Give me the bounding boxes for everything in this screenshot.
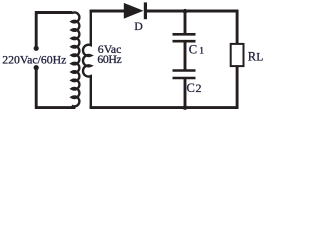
terminal dot upper 220V input — [34, 46, 39, 51]
svg-text:60Hz: 60Hz — [97, 52, 121, 66]
wire capacitor branch lower — [184, 79, 187, 109]
wire right vertical upper — [236, 10, 239, 44]
svg-text:C1: C1 — [189, 43, 204, 57]
junction node bottom at capacitor branch — [183, 105, 188, 110]
wire primary left upper — [35, 11, 38, 46]
wire bottom — [90, 106, 239, 109]
wire primary left lower — [35, 70, 38, 109]
wire right vertical lower — [236, 66, 239, 109]
svg-text:220Vac/60Hz: 220Vac/60Hz — [2, 52, 66, 66]
wire primary bottom — [35, 106, 76, 109]
wire secondary top to diode — [90, 10, 125, 13]
svg-text:C2: C2 — [187, 81, 202, 95]
resistor RL body — [231, 44, 244, 66]
wire capacitor branch upper — [184, 11, 187, 34]
inductor primary winding — [72, 12, 80, 106]
capacitor C2 plates — [173, 71, 196, 79]
junction node top at capacitor branch — [183, 9, 188, 14]
diode D symbol — [124, 2, 147, 19]
terminal dot lower 220V input — [34, 65, 39, 70]
wire top right from diode cathode — [146, 10, 238, 13]
svg-text:RL: RL — [248, 50, 264, 64]
wire between C1 and C2 — [184, 42, 187, 70]
wire primary top — [35, 11, 72, 14]
inductor secondary winding — [83, 10, 91, 109]
svg-text:D: D — [134, 19, 143, 33]
capacitor C1 plates — [173, 34, 196, 41]
